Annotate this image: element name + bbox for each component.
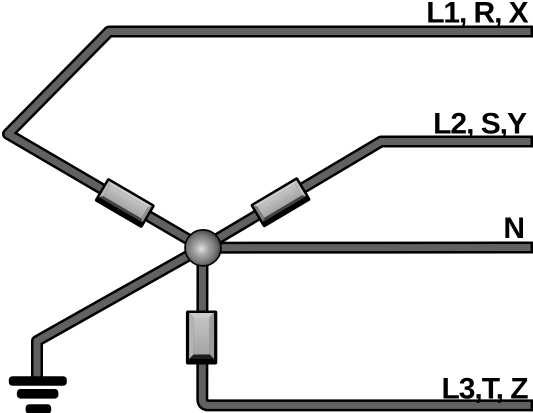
wire L2: [203, 142, 533, 248]
svg-text:N: N: [503, 212, 525, 245]
arrester box on L2 leg: [250, 177, 311, 228]
ground symbol: [9, 376, 67, 413]
svg-text:L3,T, Z: L3,T, Z: [442, 372, 529, 405]
ground bar 1 (top): [9, 376, 67, 386]
wire to ground: [37, 248, 203, 379]
arrester box on L3 leg (vertical): [186, 311, 217, 365]
svg-text:L2, S,Y: L2, S,Y: [433, 108, 527, 141]
wire L3: [202, 248, 533, 406]
wire N: [203, 242, 533, 254]
ground bar 2 (middle): [17, 389, 59, 399]
ground bar 3 (bottom): [26, 404, 52, 413]
wire L1: [8, 32, 533, 248]
node sphere: [185, 230, 221, 266]
svg-text:L1, R, X: L1, R, X: [426, 0, 528, 29]
arrester box on L1 leg: [94, 177, 155, 228]
